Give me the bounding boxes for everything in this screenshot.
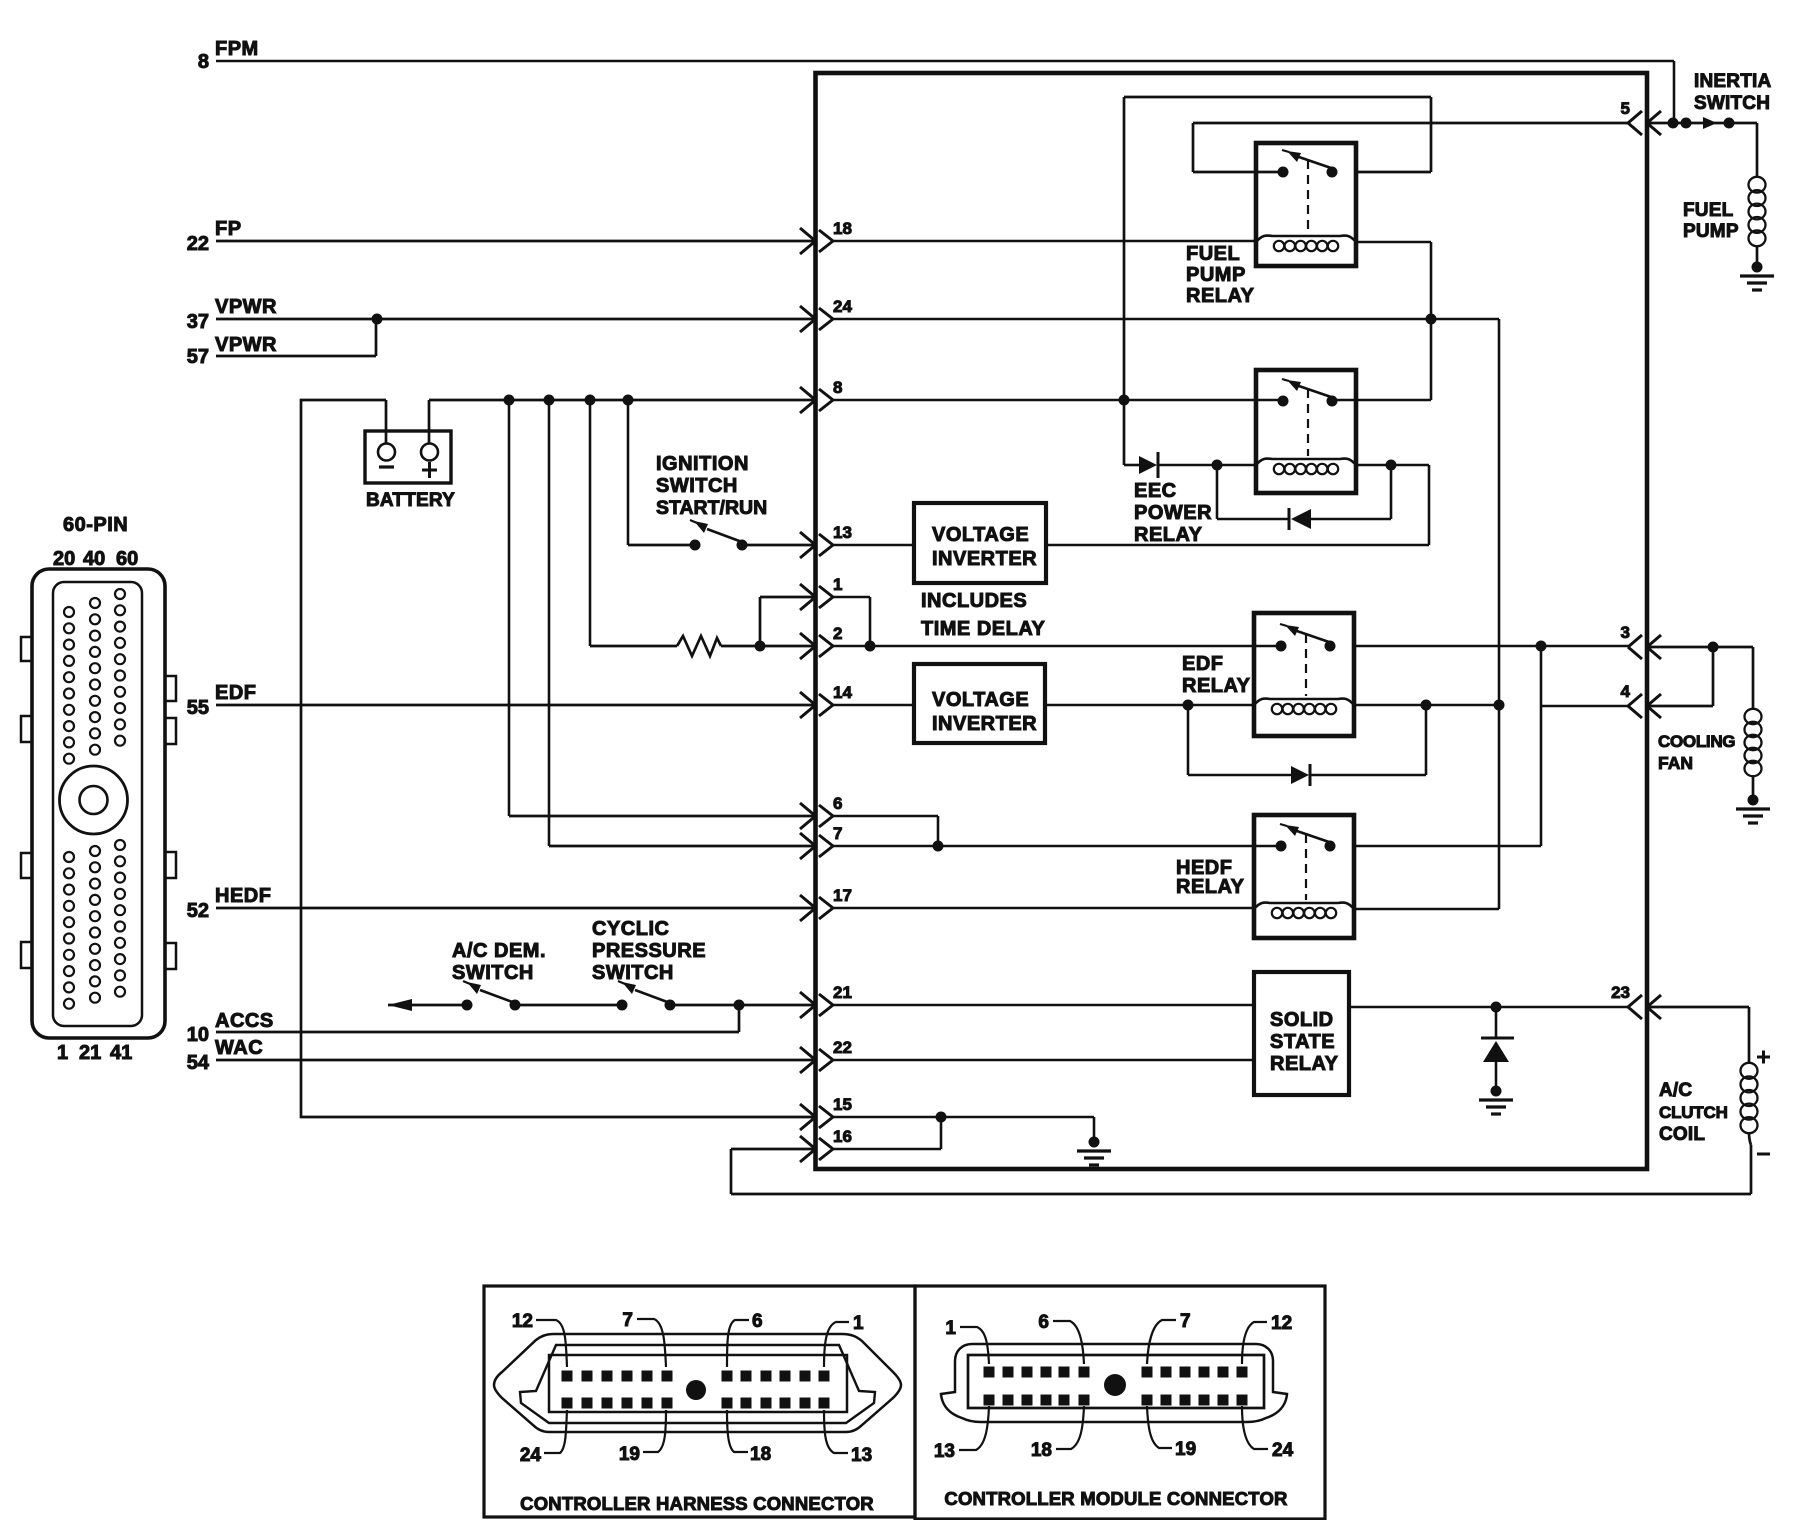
- svg-text:22: 22: [833, 1038, 852, 1057]
- svg-text:52: 52: [187, 900, 209, 922]
- svg-text:EEC: EEC: [1134, 480, 1177, 502]
- svg-text:BATTERY: BATTERY: [366, 490, 455, 511]
- svg-text:FUEL: FUEL: [1683, 200, 1734, 221]
- svg-text:SWITCH: SWITCH: [1694, 93, 1770, 114]
- svg-text:VOLTAGE: VOLTAGE: [932, 689, 1029, 711]
- svg-text:60-PIN: 60-PIN: [63, 514, 128, 536]
- svg-text:INCLUDES: INCLUDES: [921, 590, 1027, 612]
- svg-text:WAC: WAC: [215, 1037, 263, 1059]
- svg-text:IGNITION: IGNITION: [656, 453, 749, 475]
- svg-text:2: 2: [833, 624, 842, 643]
- svg-text:RELAY: RELAY: [1176, 876, 1245, 898]
- svg-text:55: 55: [187, 697, 209, 719]
- svg-text:13: 13: [851, 1445, 872, 1466]
- svg-text:PUMP: PUMP: [1683, 221, 1739, 242]
- svg-text:23: 23: [1611, 983, 1630, 1002]
- svg-text:SOLID: SOLID: [1270, 1009, 1334, 1031]
- svg-text:1: 1: [853, 1313, 864, 1334]
- svg-text:SWITCH: SWITCH: [452, 962, 534, 984]
- svg-text:VPWR: VPWR: [215, 334, 277, 356]
- svg-text:COIL: COIL: [1659, 1124, 1705, 1145]
- svg-text:21: 21: [79, 1042, 101, 1064]
- svg-text:START/RUN: START/RUN: [656, 497, 767, 519]
- svg-text:14: 14: [833, 683, 852, 702]
- svg-text:7: 7: [1180, 1311, 1191, 1332]
- svg-text:24: 24: [520, 1445, 542, 1466]
- svg-text:SWITCH: SWITCH: [592, 962, 674, 984]
- svg-text:7: 7: [833, 824, 842, 843]
- svg-text:TIME DELAY: TIME DELAY: [921, 618, 1045, 640]
- svg-text:FUEL: FUEL: [1186, 243, 1240, 265]
- svg-text:13: 13: [833, 523, 852, 542]
- svg-text:8: 8: [198, 51, 209, 73]
- svg-text:12: 12: [1271, 1313, 1292, 1334]
- svg-text:INERTIA: INERTIA: [1694, 71, 1771, 92]
- svg-text:8: 8: [833, 378, 842, 397]
- svg-text:1: 1: [833, 575, 842, 594]
- svg-text:ACCS: ACCS: [215, 1010, 274, 1032]
- svg-text:INVERTER: INVERTER: [932, 548, 1037, 570]
- svg-text:CYCLIC: CYCLIC: [592, 918, 669, 940]
- svg-text:24: 24: [833, 297, 852, 316]
- svg-text:VOLTAGE: VOLTAGE: [932, 524, 1029, 546]
- svg-text:COOLING: COOLING: [1658, 732, 1735, 751]
- svg-text:STATE: STATE: [1270, 1031, 1335, 1053]
- svg-text:VPWR: VPWR: [215, 296, 277, 318]
- svg-text:5: 5: [1621, 99, 1630, 118]
- svg-text:FP: FP: [215, 218, 242, 240]
- svg-text:RELAY: RELAY: [1134, 524, 1203, 546]
- svg-text:SWITCH: SWITCH: [656, 475, 738, 497]
- svg-text:PRESSURE: PRESSURE: [592, 940, 706, 962]
- svg-text:EDF: EDF: [1182, 653, 1224, 675]
- svg-text:57: 57: [187, 346, 209, 368]
- svg-text:A/C DEM.: A/C DEM.: [452, 940, 546, 962]
- svg-text:6: 6: [833, 794, 842, 813]
- svg-text:18: 18: [1031, 1440, 1052, 1461]
- svg-text:12: 12: [512, 1311, 533, 1332]
- svg-text:1: 1: [945, 1318, 956, 1339]
- svg-text:POWER: POWER: [1134, 502, 1212, 524]
- svg-text:20: 20: [53, 548, 75, 570]
- svg-text:24: 24: [1272, 1440, 1294, 1461]
- svg-text:1: 1: [57, 1042, 68, 1064]
- svg-text:A/C: A/C: [1659, 1080, 1692, 1101]
- svg-text:FPM: FPM: [215, 38, 259, 60]
- svg-text:6: 6: [1038, 1312, 1049, 1333]
- svg-text:21: 21: [833, 983, 852, 1002]
- svg-text:54: 54: [187, 1052, 210, 1074]
- svg-text:16: 16: [833, 1127, 852, 1146]
- svg-text:22: 22: [187, 233, 209, 255]
- svg-text:3: 3: [1621, 623, 1630, 642]
- svg-text:FAN: FAN: [1658, 753, 1693, 773]
- svg-text:19: 19: [619, 1444, 640, 1465]
- svg-text:10: 10: [187, 1024, 209, 1046]
- svg-text:13: 13: [934, 1441, 955, 1462]
- svg-text:RELAY: RELAY: [1270, 1053, 1339, 1075]
- svg-text:6: 6: [752, 1311, 763, 1332]
- svg-text:19: 19: [1175, 1439, 1196, 1460]
- svg-text:CONTROLLER HARNESS CONNECTOR: CONTROLLER HARNESS CONNECTOR: [520, 1493, 874, 1514]
- svg-text:18: 18: [833, 219, 852, 238]
- svg-text:37: 37: [187, 311, 209, 333]
- svg-text:41: 41: [110, 1042, 132, 1064]
- svg-text:INVERTER: INVERTER: [932, 713, 1037, 735]
- svg-text:CONTROLLER MODULE CONNECTOR: CONTROLLER MODULE CONNECTOR: [944, 1488, 1287, 1509]
- svg-text:60: 60: [116, 548, 138, 570]
- svg-text:HEDF: HEDF: [215, 885, 271, 907]
- svg-text:18: 18: [750, 1444, 771, 1465]
- svg-text:17: 17: [833, 886, 852, 905]
- svg-text:PUMP: PUMP: [1186, 264, 1246, 286]
- svg-text:EDF: EDF: [215, 682, 257, 704]
- svg-text:7: 7: [622, 1310, 633, 1331]
- svg-text:RELAY: RELAY: [1186, 285, 1255, 307]
- svg-text:15: 15: [833, 1095, 852, 1114]
- svg-text:4: 4: [1621, 682, 1631, 701]
- svg-text:RELAY: RELAY: [1182, 675, 1251, 697]
- svg-text:CLUTCH: CLUTCH: [1659, 1103, 1728, 1122]
- svg-text:40: 40: [83, 548, 105, 570]
